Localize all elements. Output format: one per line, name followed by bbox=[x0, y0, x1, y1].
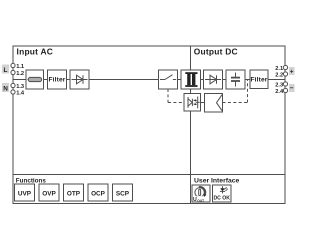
wire feedback dashed from switch down bbox=[167, 89, 169, 103]
node plus marker bbox=[289, 67, 295, 75]
wire feedback dashed to optocoupler bbox=[168, 102, 184, 104]
svg-text:UVP: UVP bbox=[18, 191, 32, 198]
terminal 2.1 bbox=[275, 65, 287, 72]
svg-text:OUT: OUT bbox=[197, 199, 204, 203]
svg-text:DC OK: DC OK bbox=[213, 196, 230, 202]
svg-text:1.1: 1.1 bbox=[16, 64, 24, 70]
svg-text:Filter: Filter bbox=[48, 77, 65, 84]
function block OCP bbox=[88, 184, 108, 201]
function block UVP bbox=[15, 184, 35, 201]
terminal 1.1 bbox=[11, 63, 24, 70]
output capacitor C1 bbox=[226, 70, 245, 89]
enclosure outer box bbox=[13, 46, 285, 204]
svg-text:Input AC: Input AC bbox=[17, 46, 54, 56]
wire optocoupler to controller bbox=[201, 102, 205, 104]
node N marker bbox=[2, 83, 9, 93]
wire feedback dashed vertical sense bbox=[247, 80, 249, 103]
rectifier diode D1 bbox=[70, 70, 89, 89]
svg-text:N: N bbox=[3, 86, 8, 93]
svg-text:Functions: Functions bbox=[16, 177, 47, 184]
output filter block bbox=[250, 70, 268, 89]
section divider horizontal bbox=[13, 174, 285, 176]
svg-text:+: + bbox=[290, 68, 294, 75]
transformer T1 bbox=[181, 70, 201, 89]
switch chopper S1 bbox=[159, 70, 178, 89]
fuse F1 bbox=[26, 70, 44, 89]
svg-text:User Interface: User Interface bbox=[194, 177, 240, 184]
svg-text:2.2: 2.2 bbox=[275, 73, 283, 79]
svg-text:1.2: 1.2 bbox=[16, 71, 24, 77]
isolation line between transformer and optocoupler bbox=[190, 89, 192, 94]
wire feedback dashed controller to sense node bbox=[223, 102, 248, 104]
svg-text:2.1: 2.1 bbox=[275, 66, 283, 72]
svg-text:SCP: SCP bbox=[116, 191, 130, 198]
function block OVP bbox=[39, 184, 59, 201]
svg-text:Output DC: Output DC bbox=[194, 46, 238, 56]
isolation line bottom section divider bbox=[190, 175, 192, 204]
svg-text:2.4: 2.4 bbox=[275, 89, 284, 95]
svg-text:2.3: 2.3 bbox=[275, 83, 283, 89]
svg-text:OCP: OCP bbox=[91, 191, 106, 198]
input filter block bbox=[48, 70, 67, 89]
svg-text:OVP: OVP bbox=[42, 191, 56, 198]
terminal 1.4 bbox=[11, 90, 25, 97]
node minus marker bbox=[289, 84, 295, 92]
svg-text:L: L bbox=[4, 67, 8, 74]
svg-text:1.3: 1.3 bbox=[16, 84, 24, 90]
function block OTP bbox=[64, 184, 84, 201]
terminal 1.2 bbox=[11, 70, 24, 77]
output diode D2 bbox=[204, 70, 223, 89]
potentiometer Uout icon bbox=[192, 185, 210, 203]
terminal 2.3 bbox=[275, 82, 287, 89]
terminal 2.4 bbox=[275, 88, 287, 95]
terminal 2.2 bbox=[275, 72, 287, 79]
terminal 1.3 bbox=[11, 83, 24, 90]
svg-text:1.4: 1.4 bbox=[16, 91, 25, 97]
node L marker bbox=[2, 65, 9, 75]
svg-text:Filter: Filter bbox=[250, 77, 267, 84]
optocoupler U1 bbox=[184, 94, 201, 112]
function block SCP bbox=[113, 184, 133, 201]
controller block U2 bbox=[205, 94, 223, 113]
svg-text:OTP: OTP bbox=[67, 191, 81, 198]
wire main AC/DC path bbox=[13, 79, 285, 81]
isolation line top segment bbox=[190, 46, 192, 70]
isolation line below optocoupler bbox=[190, 111, 192, 175]
LED DC OK icon bbox=[213, 185, 232, 202]
svg-text:−: − bbox=[290, 85, 294, 92]
